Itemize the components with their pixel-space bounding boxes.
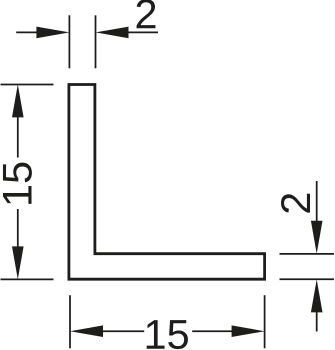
left dimension: upper shaft wire xyxy=(17,116,19,158)
left dimension: extension line bottom xyxy=(1,278,54,280)
right dimension: lower shaft wire xyxy=(316,311,318,332)
bottom dimension value label 15 xyxy=(147,320,188,349)
left dimension: upper arrowhead xyxy=(12,84,24,117)
right dimension: lower arrowhead xyxy=(311,279,323,312)
right dimension value label 2 xyxy=(281,194,310,213)
top dimension: right tail wire xyxy=(128,31,159,33)
left dimension: lower arrowhead xyxy=(12,246,24,279)
top dimension: left tail wire xyxy=(16,31,38,33)
bottom dimension: right arrowhead xyxy=(232,325,265,337)
left dimension: lower shaft wire xyxy=(17,209,19,248)
top dimension: extension line left xyxy=(68,15,70,68)
top dimension: left arrowhead xyxy=(36,27,69,39)
right dimension: extension line lower xyxy=(280,278,335,280)
bottom dimension: left arrowhead xyxy=(70,325,103,337)
bottom dimension: extension line left xyxy=(69,295,71,348)
bottom dimension: right tail wire xyxy=(192,330,233,332)
right dimension: extension line upper xyxy=(280,253,335,255)
left dimension: extension line top xyxy=(1,84,54,86)
bottom dimension: extension line right xyxy=(264,295,266,348)
top dimension value label 2 xyxy=(137,0,156,28)
bottom dimension: left tail wire xyxy=(102,330,144,332)
right dimension: upper shaft wire xyxy=(316,181,318,222)
top dimension: right arrowhead xyxy=(96,27,129,39)
angle profile L cross-section outline xyxy=(69,85,265,280)
top dimension: extension line right xyxy=(95,15,97,68)
left dimension value label 15 xyxy=(3,163,32,204)
right dimension: upper arrowhead xyxy=(311,221,323,254)
